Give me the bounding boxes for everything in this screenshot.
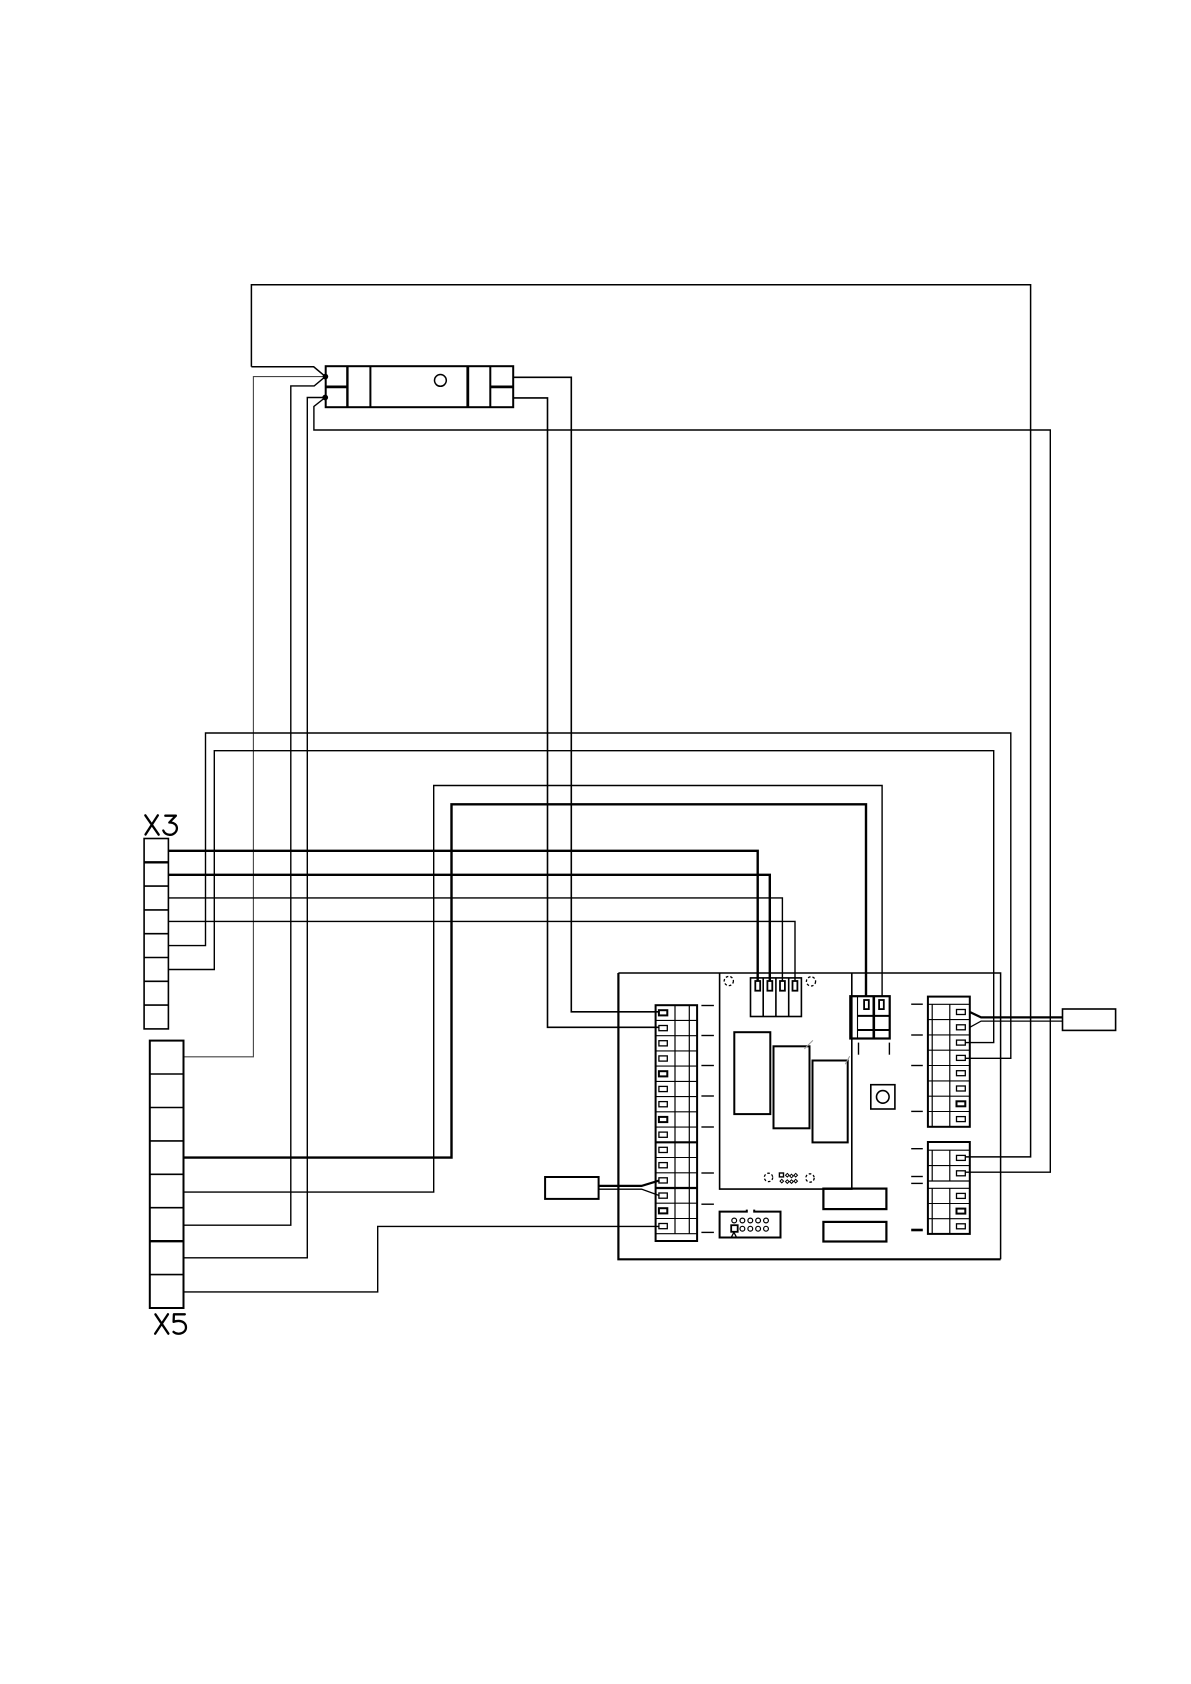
- junction dot lower-left terminal: [322, 395, 328, 401]
- twisted pair left sensor: [599, 1180, 660, 1186]
- test pad diamonds: [780, 1173, 798, 1183]
- controller enclosure box: [618, 973, 1000, 1259]
- wire: X3 pin6 to upper-right terminal block row3: [168, 751, 993, 1043]
- actuator component body: [326, 366, 514, 407]
- junction dot upper-left terminal: [323, 374, 329, 380]
- wire: top loop rectangle from actuator to lower-right terminal block row1: [251, 285, 1030, 1157]
- mounting hole bottom-left (dashed): [764, 1173, 772, 1181]
- wire: X5 pin6 to upper-left terminal dot: [184, 377, 326, 1226]
- lower-right block terminal screws: [957, 1155, 966, 1228]
- X3 connector block: [144, 839, 168, 1029]
- relay K3 corner notch: [845, 1056, 850, 1064]
- service connector square pin1: [731, 1225, 738, 1232]
- lower-right block row lines: [928, 1166, 970, 1219]
- X5 connector block: [150, 1041, 184, 1308]
- upper-right terminal block body: [928, 997, 970, 1127]
- label X3: [145, 815, 177, 835]
- left strip row lines: [656, 1020, 698, 1233]
- wire: X3 pin2 to header pin2 (thick): [168, 875, 769, 982]
- left strip terminal screws: [659, 1010, 667, 1228]
- bottom-right rectangle 2: [823, 1222, 886, 1242]
- wire: X5 pin5 to 2-pole block right slot: [184, 786, 883, 1193]
- wire: X3 pin3 to header pin3: [168, 898, 782, 982]
- wire: X5 pin1 to upper-left terminal dot (light): [184, 377, 326, 1057]
- left terminal strip body: [656, 1005, 698, 1241]
- PCB inner board outline: [720, 973, 852, 1189]
- relay K1: [734, 1032, 770, 1114]
- relay K2: [774, 1046, 810, 1128]
- wire: X5 pin4 to 2-pole block left slot (thick): [184, 804, 867, 1157]
- relay K2 corner notch: [804, 1040, 813, 1049]
- wire: X3 pin5 to upper-right terminal block row4: [168, 733, 1010, 1058]
- wire: actuator right terminal bottom to left strip row2: [513, 398, 659, 1027]
- service connector pin1 arrow mark: [731, 1232, 736, 1237]
- wire: top loop left tail into upper-left terminal dot: [251, 367, 325, 377]
- mounting hole top-right (dashed): [806, 977, 815, 986]
- mounting hole top-left (dashed): [724, 976, 733, 985]
- sensor box left (to strip rows 12/13): [545, 1177, 599, 1199]
- wire: actuator right terminal top to left strip row1: [513, 377, 659, 1012]
- 10-pin service connector: [720, 1210, 781, 1238]
- relay K3: [813, 1061, 848, 1143]
- service connector pin circles: [732, 1218, 769, 1231]
- 4-pin header on board: [751, 978, 802, 1017]
- lower-right terminal block body: [928, 1142, 970, 1234]
- 2-pole block pin stubs: [858, 1043, 860, 1055]
- twisted pair right sensor: [970, 1012, 1063, 1017]
- push button S1: [871, 1085, 895, 1109]
- actuator circle mark: [435, 375, 447, 387]
- label X5: [155, 1314, 186, 1334]
- left strip pin stubs: [701, 1006, 714, 1233]
- upper-right block row lines: [928, 1020, 970, 1112]
- lower-right block pin stubs: [911, 1149, 923, 1230]
- wire: lower-left terminal dot to lower-right terminal block row2: [314, 398, 1050, 1173]
- 2-pole terminal block on board: [850, 996, 889, 1038]
- wire: X5 pin8 to left terminal strip row15: [184, 1226, 660, 1292]
- upper-right block terminal screws: [957, 1010, 966, 1122]
- wire: X3 pin4 to header pin4: [168, 921, 795, 981]
- bottom-right rectangle 1: [823, 1189, 886, 1210]
- test pad square: [779, 1173, 783, 1177]
- wire: X5 pin7 to lower-left terminal dot: [184, 398, 326, 1258]
- upper-right block pin stubs: [911, 1004, 923, 1111]
- wire: X3 pin1 to header pin1 (thick): [168, 851, 757, 982]
- sensor box right (from upper-right block rows 1/2): [1063, 1009, 1116, 1030]
- mounting hole bottom-right (dashed): [806, 1174, 814, 1182]
